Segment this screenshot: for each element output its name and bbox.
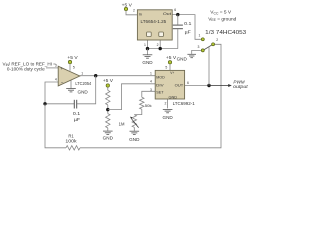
svg-text:+5 V: +5 V	[122, 2, 133, 7]
svg-text:+5 V: +5 V	[67, 55, 78, 60]
svg-text:+5 V: +5 V	[103, 78, 114, 83]
svg-text:2: 2	[165, 102, 167, 106]
svg-text:1: 1	[144, 43, 146, 47]
svg-text:1: 1	[81, 71, 83, 75]
svg-text:GND: GND	[177, 56, 187, 61]
svg-text:SET: SET	[156, 89, 164, 94]
svg-text:1/3 74HC4053: 1/3 74HC4053	[205, 30, 246, 36]
svg-text:LT6654-1.25: LT6654-1.25	[141, 19, 167, 24]
svg-text:100k: 100k	[65, 138, 77, 143]
svg-text:3: 3	[150, 88, 152, 92]
svg-text:2: 2	[157, 43, 159, 47]
svg-text:1: 1	[199, 34, 201, 38]
svg-text:Out: Out	[163, 11, 172, 16]
svg-text:3: 3	[55, 63, 57, 67]
svg-text:In: In	[139, 11, 142, 16]
svg-text:GND: GND	[103, 136, 113, 141]
svg-text:DIV: DIV	[156, 83, 164, 88]
svg-text:VEE = ground: VEE = ground	[208, 16, 236, 22]
svg-text:50k: 50k	[145, 103, 152, 108]
svg-text:+: +	[61, 66, 64, 71]
svg-text:output: output	[233, 84, 248, 89]
svg-text:GND: GND	[129, 137, 139, 142]
svg-text:LTC2054: LTC2054	[75, 81, 91, 86]
svg-text:0.1: 0.1	[73, 111, 81, 116]
svg-text:0-100% duty cycle: 0-100% duty cycle	[7, 67, 45, 72]
svg-text:LTC6992-1: LTC6992-1	[173, 101, 196, 106]
svg-text:GND: GND	[169, 95, 178, 100]
svg-text:GND: GND	[163, 115, 173, 120]
svg-text:5: 5	[73, 65, 75, 69]
svg-text:GND: GND	[78, 89, 88, 94]
svg-text:0.1: 0.1	[184, 21, 192, 26]
svg-text:3: 3	[198, 45, 200, 49]
svg-text:MOD: MOD	[156, 75, 165, 80]
svg-text:−: −	[61, 80, 64, 85]
svg-text:V+: V+	[170, 71, 174, 75]
svg-text:VCC = 5 V: VCC = 5 V	[210, 10, 232, 16]
svg-text:5: 5	[165, 65, 167, 69]
svg-text:2: 2	[133, 8, 135, 12]
svg-text:4: 4	[55, 78, 57, 82]
svg-text:1M: 1M	[119, 122, 125, 127]
svg-text:+5 V: +5 V	[166, 55, 177, 60]
svg-text:2: 2	[216, 38, 218, 42]
svg-text:6: 6	[187, 81, 189, 85]
svg-text:µF: µF	[185, 30, 192, 35]
svg-text:OUT: OUT	[175, 83, 184, 88]
svg-text:6: 6	[174, 8, 176, 12]
svg-text:4: 4	[150, 80, 152, 84]
svg-text:µF: µF	[74, 117, 81, 122]
svg-text:GND: GND	[142, 60, 152, 65]
svg-text:1: 1	[150, 71, 152, 75]
